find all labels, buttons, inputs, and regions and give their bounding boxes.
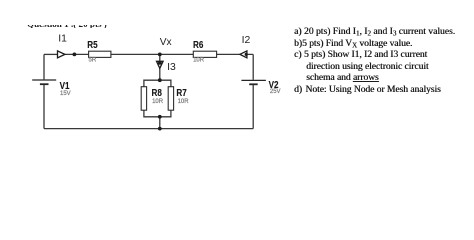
wire right branch lower [252, 84, 254, 128]
svg-text:R7: R7 [176, 87, 186, 98]
resistor R8 [141, 87, 146, 111]
wire arrow-to-R5 segment [64, 53, 89, 55]
current arrow I1 [58, 51, 65, 58]
svg-text:Vx: Vx [160, 37, 173, 48]
wire left branch upper [43, 54, 45, 79]
resistor R7 [168, 87, 173, 111]
wire R6-to-corner segment [217, 53, 254, 55]
dot at I3 arrow tail [158, 61, 162, 65]
wire bottom bus [44, 128, 253, 130]
wire combo bottom rail [144, 110, 171, 117]
svg-text:R6: R6 [193, 39, 203, 50]
svg-text:I1: I1 [58, 34, 67, 45]
resistor R6 [193, 51, 216, 57]
cropped header text (bottom sliver of "Question 1 ( 20 pts )") [26, 25, 246, 28]
junction dot combo top [158, 78, 162, 82]
svg-text:10R: 10R [193, 56, 205, 63]
svg-text:I3: I3 [167, 62, 176, 73]
svg-text:5R: 5R [89, 57, 97, 64]
wire combo top rail [144, 80, 171, 87]
battery V2 [241, 80, 266, 84]
dot at I2 arrow tail [245, 53, 248, 56]
wire combo to bus [159, 117, 161, 129]
wire Vx down to combo [159, 54, 161, 80]
svg-text:15V: 15V [60, 90, 72, 97]
svg-text:10R: 10R [152, 98, 164, 105]
wire top-left segment [44, 53, 58, 55]
wire right branch upper [252, 54, 254, 79]
svg-text:10R: 10R [178, 98, 190, 105]
battery V1 [32, 80, 56, 84]
resistor R5 [89, 51, 111, 57]
svg-text:R5: R5 [87, 39, 97, 50]
node Vx dot [158, 53, 162, 57]
junction dot bottom bus [158, 127, 162, 131]
current arrow I2 [240, 51, 247, 58]
svg-text:R8: R8 [152, 87, 162, 98]
svg-text:I2: I2 [242, 35, 251, 46]
wire R5-to-Vx-to-R6 segment [111, 53, 193, 55]
current arrow I3 [157, 61, 164, 68]
wire left branch lower [43, 84, 45, 128]
junction dot after I1 [73, 53, 77, 57]
svg-text:25V: 25V [270, 88, 282, 95]
question text block [294, 26, 472, 95]
junction dot combo bottom [158, 115, 162, 119]
